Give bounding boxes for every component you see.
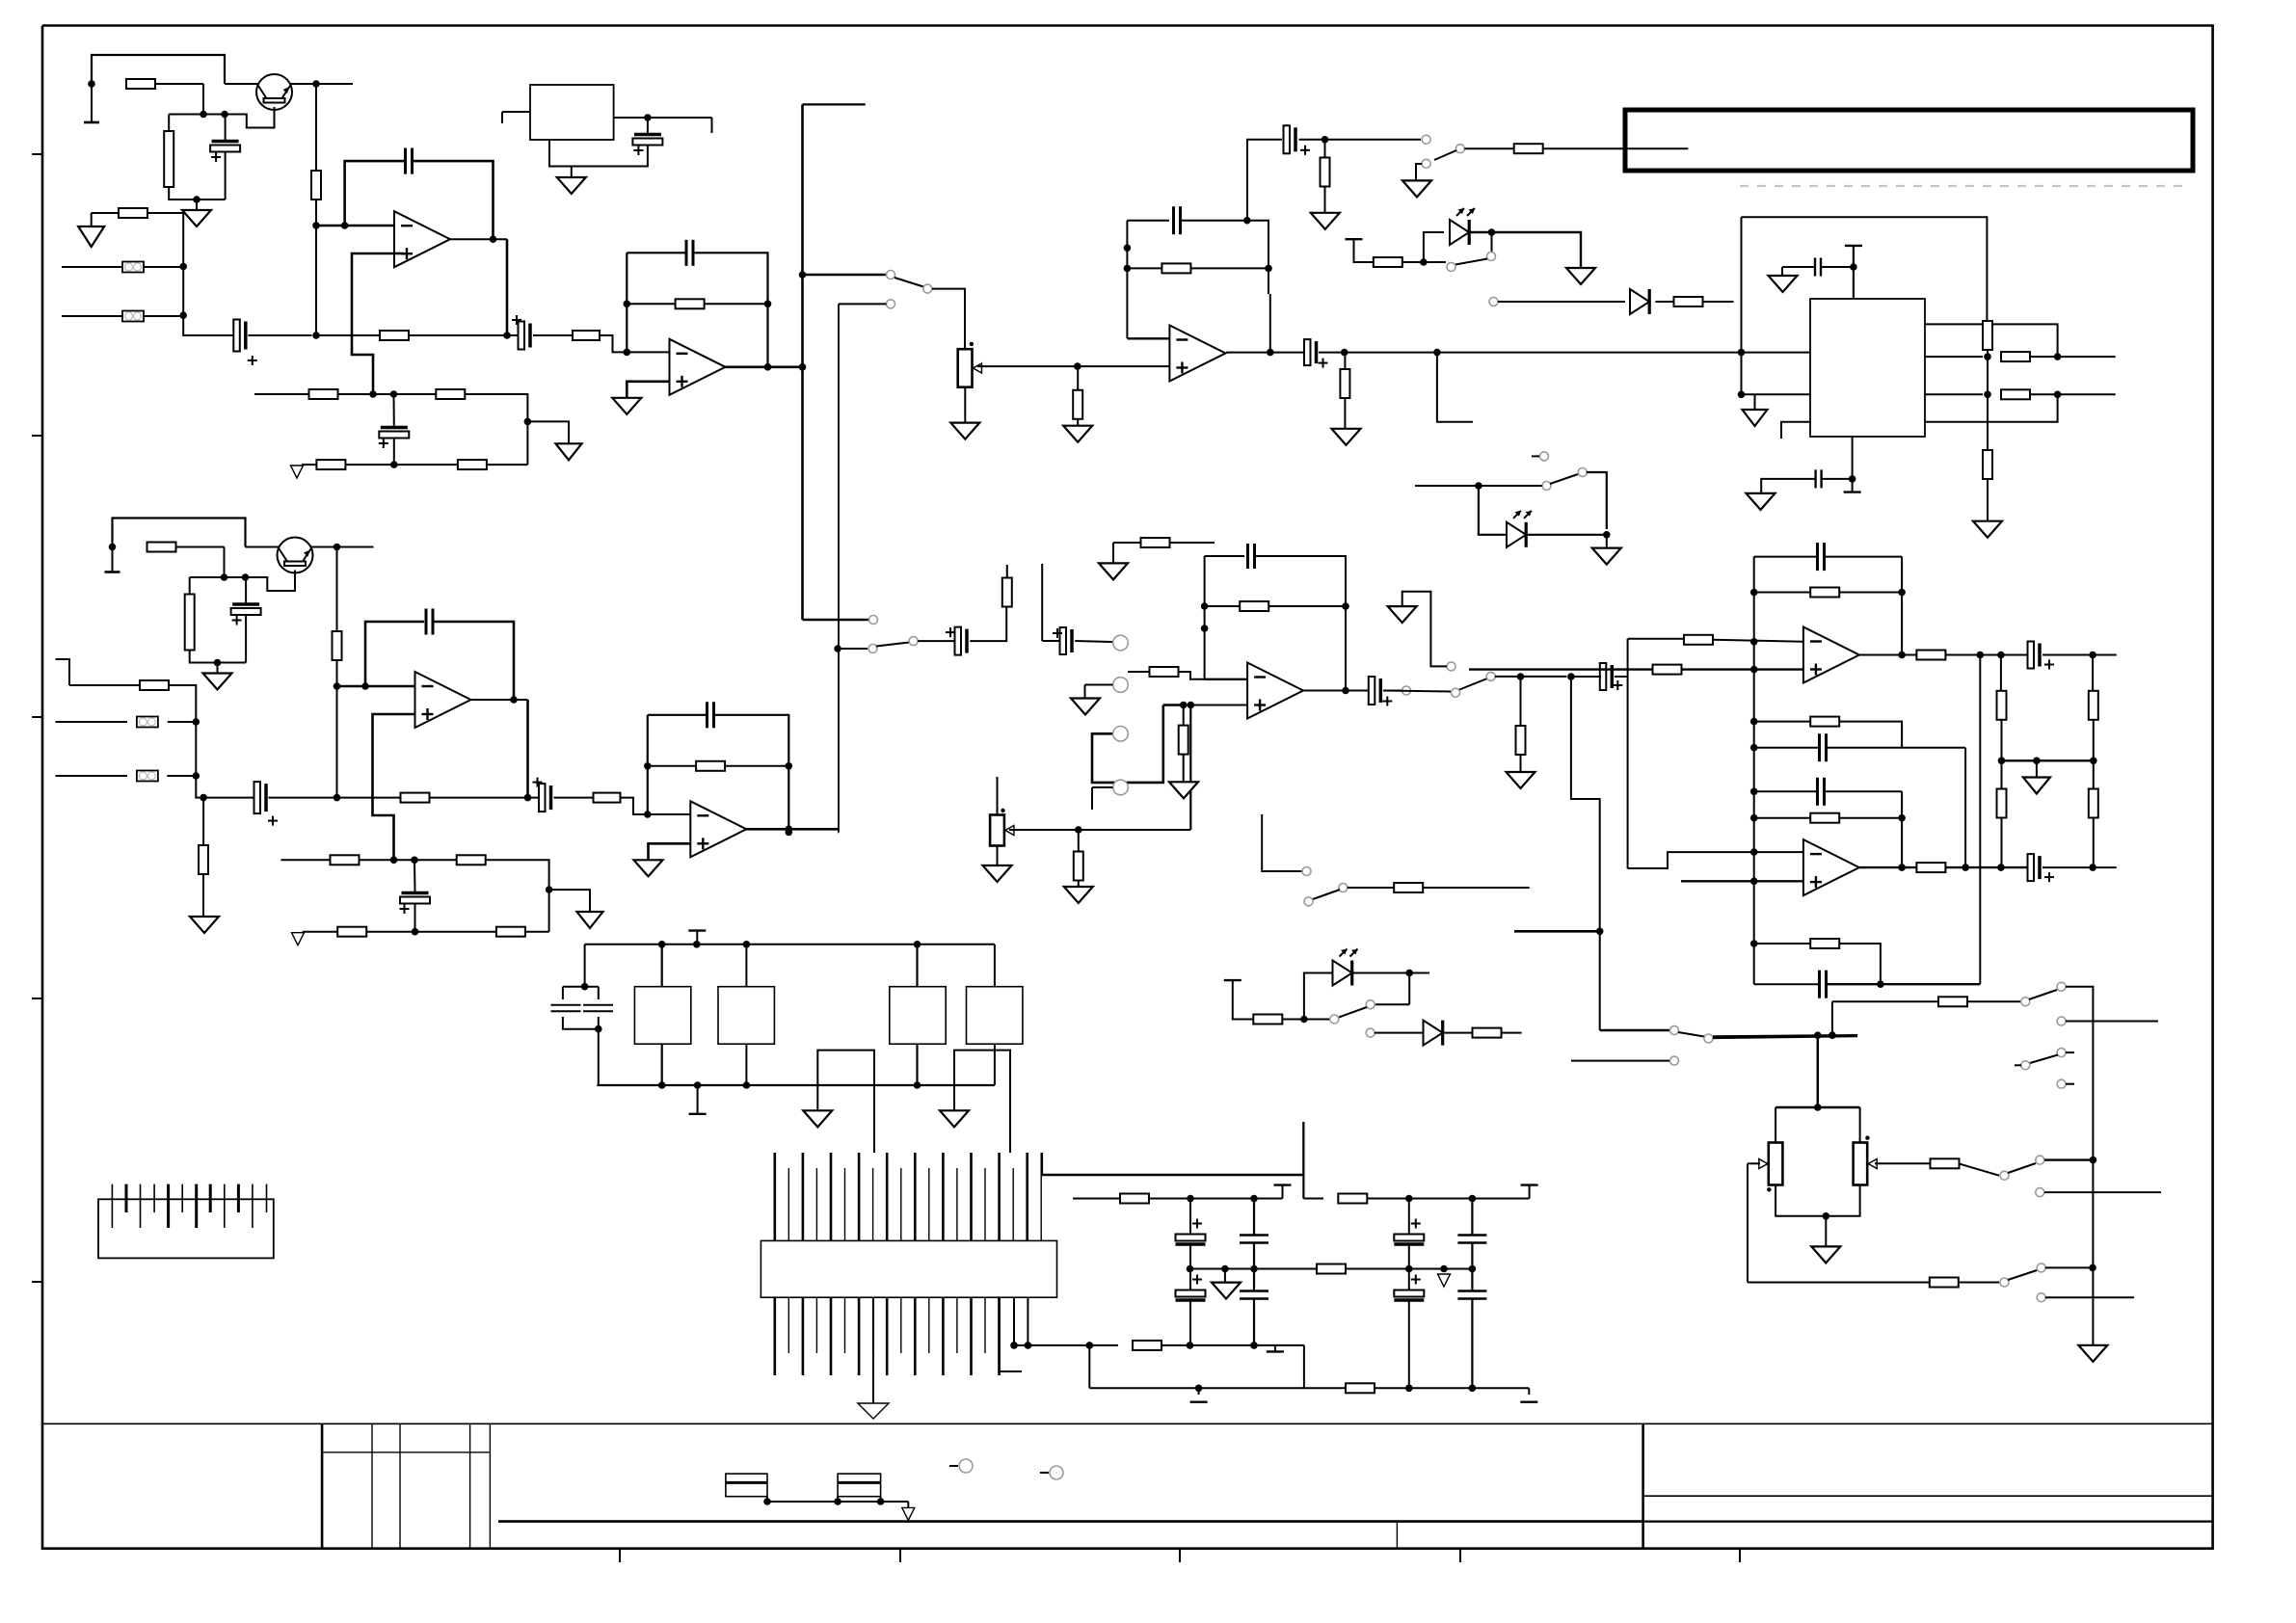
wire — [1822, 266, 1854, 268]
node — [2090, 1157, 2097, 1164]
wire — [2066, 1021, 2158, 1023]
wire — [92, 212, 119, 214]
wire noninverting U2 — [627, 382, 669, 398]
resistor R62 — [1930, 1278, 1959, 1288]
node — [200, 794, 207, 802]
node — [390, 857, 398, 865]
node — [1187, 1195, 1194, 1203]
node — [1997, 864, 2005, 871]
wire — [183, 315, 235, 335]
terminal — [1274, 1184, 1292, 1185]
resistor R3 — [119, 208, 147, 218]
wire — [2045, 1266, 2093, 1268]
switch contact SW11a — [2000, 1171, 2009, 1180]
node — [1750, 848, 1758, 856]
resistor R49 — [1653, 665, 1682, 675]
wire — [803, 619, 869, 622]
wire — [195, 722, 197, 776]
wire — [1960, 1282, 2000, 1284]
wire — [1253, 1269, 1255, 1291]
resistor R27 — [333, 631, 342, 660]
title table row 2 — [1643, 1520, 2213, 1522]
wire — [837, 1497, 839, 1502]
wire — [714, 715, 789, 830]
resistor R40 — [1141, 538, 1170, 547]
node — [786, 829, 793, 837]
node — [1124, 244, 1132, 252]
wire — [907, 1502, 909, 1507]
wire — [1741, 217, 1743, 394]
wire — [1852, 437, 1854, 492]
wire — [1352, 972, 1429, 974]
wire — [1781, 422, 1811, 439]
capacitor C32 — [1394, 1275, 1424, 1301]
wire — [1825, 1216, 1827, 1247]
potentiometer VR4 — [1854, 1143, 1878, 1185]
wire — [1959, 1163, 1999, 1175]
capacitor C3 — [406, 148, 413, 174]
switch contact SW11c — [2036, 1188, 2044, 1197]
wire — [168, 721, 197, 723]
wire — [598, 987, 600, 999]
wire — [1084, 685, 1086, 699]
wire — [627, 252, 686, 253]
switch contact SW4b — [1447, 263, 1455, 272]
wire — [661, 945, 663, 987]
ground — [1592, 548, 1621, 565]
node — [1405, 1195, 1413, 1203]
wire rail4 — [1089, 1387, 1346, 1389]
wire — [1161, 1344, 1304, 1346]
resistor R43 — [1684, 635, 1713, 645]
wire — [1282, 1185, 1284, 1199]
resistor R21 — [1983, 321, 1992, 350]
wire — [393, 394, 395, 428]
node — [1195, 1385, 1203, 1393]
wire — [1827, 983, 1981, 985]
resistor R32 — [457, 855, 486, 865]
wire — [563, 986, 599, 988]
frame fold tick — [32, 153, 42, 155]
wire — [1402, 261, 1446, 263]
wire inverting U8 — [1205, 678, 1248, 680]
wire — [1415, 485, 1542, 487]
capacitor C24 — [551, 1005, 581, 1011]
wire — [408, 334, 519, 336]
wire — [1014, 1344, 1118, 1346]
node — [1469, 1265, 1477, 1273]
resistor R28 — [401, 793, 430, 803]
wire — [1302, 1122, 1304, 1199]
wire — [2044, 1191, 2161, 1193]
connector header J5 — [98, 1199, 274, 1258]
wire — [647, 118, 649, 134]
wire rail1R — [1303, 1198, 1323, 1200]
wire — [1754, 790, 1818, 792]
wire — [1532, 455, 1539, 457]
resistor R1 — [126, 79, 155, 89]
node — [193, 718, 200, 726]
wire output U1 — [450, 238, 507, 240]
node — [390, 390, 398, 398]
wire — [525, 931, 549, 933]
wire main L bus — [1437, 352, 1810, 354]
capacitor C4 — [512, 315, 530, 350]
wire — [1304, 973, 1338, 1020]
wire — [1354, 239, 1374, 262]
wire — [1256, 556, 1346, 606]
capacitor C20 — [1248, 544, 1255, 569]
ground — [203, 674, 232, 690]
switch contact SW14a — [1366, 1000, 1375, 1009]
switch lever SW14 — [1339, 1007, 1367, 1018]
switch lever SW2 — [876, 643, 909, 647]
ground — [803, 1110, 832, 1127]
wire — [224, 547, 226, 578]
wire — [245, 577, 247, 604]
node — [1567, 673, 1575, 680]
wire top rail xtal — [585, 944, 995, 945]
wire — [1781, 267, 1783, 276]
switch lever SW8 — [1550, 474, 1578, 484]
switch contact SW8a — [1540, 452, 1549, 461]
wire collector rail ch1 — [225, 83, 353, 85]
switch contact SW5a — [1452, 688, 1460, 697]
node — [546, 886, 553, 893]
ground — [2023, 778, 2050, 794]
wire — [533, 334, 573, 336]
wire — [1040, 1472, 1049, 1474]
title block column — [371, 1423, 373, 1548]
potentiometer VR1 fader ch1 — [958, 349, 982, 387]
node — [658, 1081, 666, 1089]
wire — [1495, 676, 1566, 678]
wire — [336, 659, 338, 798]
node — [1750, 718, 1758, 726]
wire — [1092, 786, 1113, 788]
wire — [414, 161, 494, 239]
node — [1823, 1212, 1830, 1220]
title block column — [489, 1423, 491, 1548]
node — [644, 762, 652, 770]
capacitor C39 — [1820, 971, 1827, 998]
wire — [745, 945, 747, 987]
wire — [414, 859, 456, 861]
node — [2033, 758, 2041, 765]
connector J2 — [1113, 678, 1129, 693]
node — [1025, 1342, 1032, 1349]
node — [1750, 878, 1758, 886]
frame ruler tick — [1459, 1549, 1461, 1562]
wire — [970, 606, 1006, 641]
wire — [2093, 720, 2095, 761]
wire — [627, 303, 676, 305]
node — [221, 111, 228, 119]
node — [1475, 482, 1482, 490]
wire — [1205, 555, 1244, 557]
capacitor C18 — [707, 702, 714, 728]
switch contact SW5a — [1402, 686, 1411, 695]
switch lever SW11 — [2008, 1163, 2036, 1173]
wire — [202, 798, 204, 845]
node — [312, 222, 320, 229]
terminal — [1844, 491, 1861, 492]
node — [193, 772, 200, 780]
capacitor C27 — [1240, 1236, 1268, 1243]
wire output U8 — [1304, 690, 1371, 692]
wire — [1027, 1297, 1028, 1345]
wire — [1091, 787, 1093, 810]
wire — [1078, 880, 1080, 887]
ferrite bead L3 — [137, 717, 158, 728]
wire — [337, 393, 393, 395]
node — [644, 811, 652, 818]
wire mid rail — [2002, 759, 2094, 761]
wire to balance pots — [1713, 1036, 1857, 1038]
capacitor C38 — [2028, 854, 2055, 882]
wire — [2030, 393, 2116, 395]
node — [1267, 349, 1274, 357]
wire — [554, 797, 594, 799]
wire — [1345, 606, 1347, 691]
wire pin row 3 — [1925, 393, 1983, 395]
diode D2 — [1424, 1021, 1443, 1046]
wire — [1268, 268, 1269, 294]
wire — [414, 904, 416, 932]
op-amp U2 — [670, 339, 726, 395]
wire — [1078, 830, 1080, 852]
wire — [598, 1029, 600, 1085]
ground — [190, 917, 219, 933]
connector J8 — [1050, 1466, 1063, 1479]
wire — [549, 140, 648, 167]
node — [1342, 602, 1349, 610]
ground (arrow) — [291, 466, 304, 478]
wire — [1491, 232, 1493, 253]
node — [503, 332, 511, 339]
switch lever SW1 — [894, 278, 923, 287]
wire — [148, 213, 184, 267]
wire — [501, 112, 503, 123]
node — [221, 573, 228, 581]
pot marker — [970, 342, 974, 346]
node — [1187, 1265, 1194, 1273]
node — [1829, 1031, 1836, 1039]
wire — [182, 267, 184, 316]
wire pin row 4 — [1925, 394, 2058, 422]
switch contact SW6b — [1339, 884, 1348, 892]
wire — [1655, 301, 1674, 303]
wire output U2 — [725, 365, 803, 368]
wire — [486, 860, 548, 931]
resistor R45 — [1338, 1194, 1367, 1204]
node — [1738, 349, 1746, 357]
node — [2054, 353, 2062, 360]
node — [1898, 864, 1906, 871]
wire — [1875, 1162, 1931, 1164]
wire — [1274, 1345, 1276, 1352]
wire — [1299, 139, 1422, 141]
wire — [1754, 983, 1820, 985]
LED LED1 — [1450, 208, 1475, 245]
connector J3 — [1113, 780, 1129, 795]
wire — [1282, 1019, 1329, 1021]
wire bus stub — [803, 103, 866, 105]
wire — [248, 334, 311, 336]
node — [1124, 265, 1132, 273]
capacitor C36 — [1820, 733, 1827, 761]
node — [2054, 391, 2062, 399]
wire — [1742, 393, 1811, 395]
title block column — [469, 1423, 471, 1548]
connector J5 pins — [112, 1184, 266, 1228]
wire — [1754, 394, 1756, 410]
wire — [916, 1044, 918, 1085]
wire mixer left bus — [1753, 557, 1755, 985]
pot marker — [1001, 809, 1004, 812]
wire feedback left U4 — [1126, 221, 1128, 339]
wire noninverting U7 — [649, 843, 691, 860]
wire — [526, 700, 529, 798]
switch contact SW11b — [2036, 1156, 2044, 1164]
node — [786, 826, 793, 834]
wire — [1839, 944, 1881, 984]
wire — [202, 874, 204, 917]
wire — [169, 685, 196, 722]
diode D1 — [1630, 289, 1649, 314]
switch lever SW6 — [1313, 890, 1340, 899]
wire — [1189, 1301, 1191, 1345]
node — [1984, 353, 1991, 360]
wire — [839, 303, 887, 305]
wire — [91, 213, 93, 226]
node emitter ch1 — [312, 80, 320, 88]
wire to fader switch — [803, 274, 887, 276]
capacitor C37 — [1818, 778, 1825, 806]
resistor R39 — [1179, 726, 1188, 755]
voltage regulator U3 — [530, 85, 614, 140]
wire — [1498, 301, 1625, 303]
wire — [69, 684, 140, 686]
wire — [1041, 564, 1043, 641]
switch contact SW2b — [868, 645, 877, 653]
wire — [1408, 1199, 1410, 1235]
resistor R44 — [1120, 1194, 1149, 1204]
wire — [1628, 852, 1803, 868]
capacitor C16 — [426, 609, 433, 635]
wire — [1528, 1388, 1530, 1395]
wire — [1520, 755, 1522, 772]
wire — [303, 931, 338, 933]
wire — [1839, 722, 1902, 748]
resistor R46 — [1317, 1264, 1346, 1274]
resistor R59 — [2089, 789, 2098, 818]
ground — [1747, 493, 1775, 510]
connector J6 pins — [775, 1153, 1041, 1375]
wire — [1383, 691, 1451, 692]
wire base Q2 — [246, 571, 296, 592]
wire — [1825, 556, 1903, 558]
wire — [2001, 760, 2003, 789]
wire — [1006, 565, 1008, 578]
wire — [144, 266, 183, 268]
wire — [1571, 676, 1601, 678]
node — [1814, 1031, 1822, 1039]
wire bottom rail xtal — [597, 1084, 995, 1086]
node — [1469, 1195, 1477, 1203]
resistor R4 — [311, 171, 321, 200]
wire — [1839, 817, 1902, 819]
op-amp U4 — [1169, 326, 1225, 382]
switch contact SW3a — [1422, 135, 1430, 144]
node — [1074, 362, 1081, 370]
ground — [78, 226, 104, 247]
node — [1433, 349, 1441, 357]
node — [1405, 970, 1413, 977]
frame ruler tick — [1739, 1549, 1741, 1562]
node — [1750, 814, 1758, 822]
wire — [1375, 1387, 1529, 1389]
wire — [393, 439, 395, 466]
wire — [964, 387, 966, 423]
op-amp U7 — [690, 801, 746, 857]
wire wiper ch2 — [1009, 829, 1190, 831]
wire — [880, 1497, 882, 1502]
wire — [997, 846, 999, 866]
capacitor C30 — [1176, 1275, 1206, 1301]
node bias ch1 — [88, 80, 95, 88]
transistor Q2 — [278, 538, 313, 573]
switch contact SW2c — [909, 637, 918, 646]
wire — [1344, 398, 1346, 429]
wire — [1375, 1003, 1409, 1005]
wire — [2066, 987, 2093, 1160]
node — [764, 363, 772, 371]
ground — [182, 210, 211, 226]
wire — [2001, 817, 2003, 867]
wire — [1606, 535, 1608, 548]
wire — [302, 464, 317, 466]
node — [242, 573, 250, 581]
crystal/relay X3 — [890, 987, 946, 1044]
wire feedback left U2 — [626, 253, 627, 352]
wire — [1319, 352, 1437, 354]
wire — [1754, 721, 1811, 723]
resistor R35 — [199, 845, 208, 874]
node — [877, 1498, 885, 1505]
switch contact SW1c — [887, 300, 895, 308]
wire input 1b — [62, 315, 122, 317]
wire — [345, 464, 458, 466]
node — [1750, 940, 1758, 947]
capacitor C13 — [1816, 469, 1822, 488]
ground — [557, 177, 586, 194]
transistor Q1 — [256, 74, 292, 110]
switch contact SW14b — [1330, 1015, 1339, 1024]
terminal — [1267, 1350, 1284, 1352]
resistor R34 — [496, 927, 525, 937]
capacitor C31 — [1240, 1291, 1268, 1299]
connector header J6 — [761, 1240, 1056, 1297]
wire — [1901, 791, 1903, 867]
node — [390, 461, 398, 468]
wire noninverting U6 — [373, 714, 415, 860]
wire — [1747, 1163, 1749, 1282]
wire — [949, 1465, 958, 1467]
wire — [1408, 973, 1410, 1005]
wire — [1901, 557, 1903, 655]
ground — [1064, 887, 1093, 903]
